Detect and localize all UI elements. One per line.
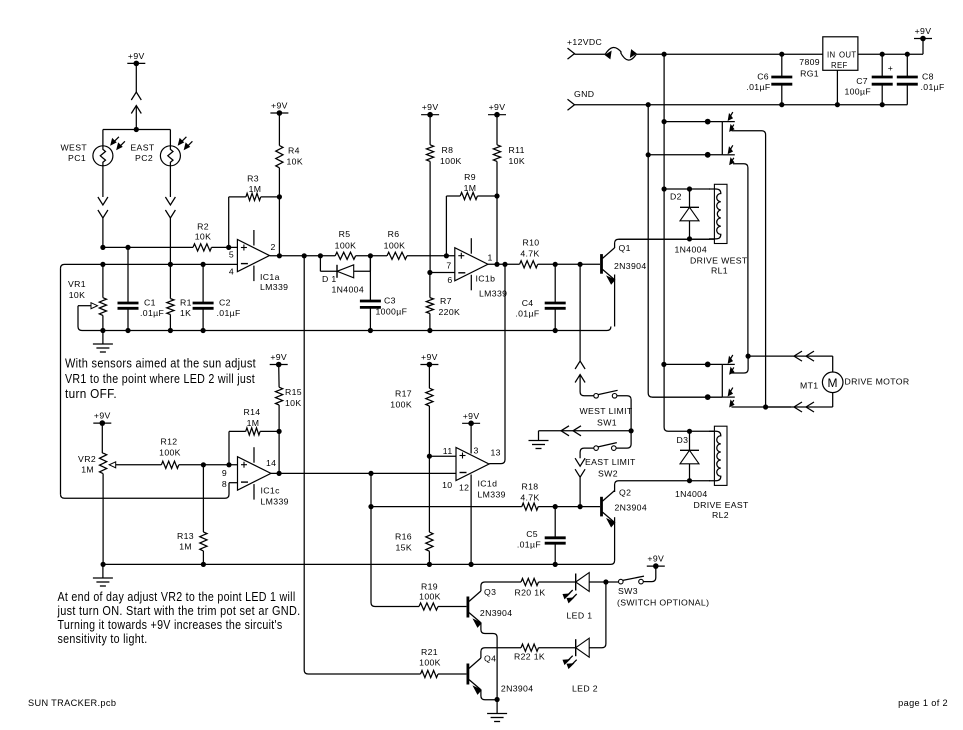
svg-text:LM339: LM339 bbox=[479, 289, 507, 299]
coil winding RL1 bbox=[709, 189, 721, 239]
junction R7 bottom bbox=[427, 328, 432, 333]
wire 9V riser bbox=[922, 39, 924, 55]
svg-text:5: 5 bbox=[229, 250, 234, 260]
wire PC1 down bbox=[102, 166, 104, 197]
svg-text:R8: R8 bbox=[442, 145, 454, 155]
svg-text:SUN TRACKER.pcb: SUN TRACKER.pcb bbox=[28, 698, 116, 708]
svg-text:.01µF: .01µF bbox=[746, 82, 770, 92]
connector J1 +12VDC input bbox=[567, 37, 602, 59]
pin 9 label bbox=[222, 468, 227, 478]
wire LED2 to SW3 node bbox=[589, 582, 606, 648]
junction row4 dot bbox=[705, 394, 711, 400]
svg-text:100K: 100K bbox=[335, 240, 357, 250]
pin 5 label bbox=[229, 250, 234, 260]
svg-text:D2: D2 bbox=[670, 192, 682, 202]
svg-text:10: 10 bbox=[442, 480, 452, 490]
svg-text:page 1 of 2: page 1 of 2 bbox=[898, 698, 948, 708]
resistor R19 100K bbox=[419, 582, 441, 611]
capacitor C3 1000uF bbox=[360, 256, 407, 331]
svg-text:12: 12 bbox=[459, 483, 469, 493]
wire R20 to LED1 bbox=[539, 581, 576, 583]
svg-text:1M: 1M bbox=[81, 465, 94, 475]
resistor R15 10K bbox=[276, 365, 303, 432]
label RL1 name bbox=[690, 256, 748, 276]
wire PC1 to + node bbox=[102, 218, 104, 247]
svg-text:SW2: SW2 bbox=[598, 469, 618, 479]
junction C7 bottom bbox=[880, 102, 885, 107]
svg-text:DRIVE EAST: DRIVE EAST bbox=[694, 500, 749, 510]
wire sensor feed bbox=[135, 106, 137, 130]
wire contact row4 bbox=[652, 396, 722, 398]
pole link RL2 contacts bbox=[721, 364, 723, 397]
svg-text:Q3: Q3 bbox=[484, 587, 496, 597]
wire contact row1 bbox=[664, 121, 722, 123]
svg-text:R16: R16 bbox=[395, 532, 412, 542]
resistor R17 100K bbox=[390, 365, 433, 457]
svg-text:(SWITCH OPTIONAL): (SWITCH OPTIONAL) bbox=[617, 598, 709, 608]
svg-text:OUT: OUT bbox=[839, 51, 857, 60]
wire +12V to regulator IN bbox=[636, 53, 823, 55]
junction output/R4 bbox=[277, 253, 282, 258]
resistor R9 1M bbox=[446, 172, 497, 200]
svg-text:VR2: VR2 bbox=[78, 454, 96, 464]
junction D2 bottom bbox=[687, 236, 692, 241]
diode D1 1N4004 bbox=[320, 256, 370, 295]
pin 12 label bbox=[459, 483, 469, 493]
wire Q1 emitter bbox=[614, 275, 616, 327]
junction row1 dot bbox=[705, 119, 711, 125]
svg-text:1M: 1M bbox=[464, 183, 477, 193]
svg-text:3: 3 bbox=[474, 446, 479, 456]
wire - input bus (node B) bbox=[61, 264, 238, 268]
resistor R3 1M bbox=[229, 174, 280, 201]
svg-text:10K: 10K bbox=[509, 156, 526, 166]
wire Q4 emitter bbox=[481, 690, 497, 700]
junction row2 dot bbox=[705, 152, 711, 158]
svg-text:PC2: PC2 bbox=[135, 153, 153, 163]
svg-text:R7: R7 bbox=[440, 296, 452, 306]
junction +12V bus tap bbox=[662, 52, 667, 57]
junction R9 tap bbox=[444, 253, 449, 258]
wire R6 to pin7 bbox=[407, 255, 455, 257]
svg-text:100K: 100K bbox=[384, 240, 406, 250]
svg-text:LED 1: LED 1 bbox=[567, 611, 593, 621]
capacitor C6 .01uF bbox=[746, 54, 792, 104]
LED 1 bbox=[563, 573, 592, 621]
photocell PC2 bbox=[130, 137, 192, 166]
capacitor C1 .01uF bbox=[118, 247, 165, 330]
capacitor C2 .01uF bbox=[193, 264, 241, 330]
svg-text:.01µF: .01µF bbox=[517, 540, 541, 550]
connector P7 (gnd link) bbox=[561, 426, 581, 436]
junction pin11 node bbox=[427, 454, 432, 459]
svg-text:R13: R13 bbox=[177, 531, 194, 541]
svg-text:6: 6 bbox=[447, 275, 452, 285]
junction R9/R11 bbox=[494, 193, 499, 198]
svg-text:R17: R17 bbox=[395, 389, 412, 399]
wire K1b throw bbox=[733, 164, 748, 356]
junction wire-OR to IC1d bbox=[502, 262, 507, 267]
svg-text:100K: 100K bbox=[390, 400, 412, 410]
svg-text:just turn ON. Start with the: just turn ON. Start with the trim pot se… bbox=[57, 604, 301, 618]
connector P8 (to Q2 base) bbox=[575, 458, 585, 477]
svg-text:.01µF: .01µF bbox=[515, 309, 539, 319]
junction D3 bottom bbox=[687, 478, 692, 483]
svg-text:4: 4 bbox=[229, 267, 234, 277]
op-amp IC1d LM339 bbox=[456, 448, 506, 500]
svg-text:100K: 100K bbox=[159, 448, 181, 458]
svg-text:SW3: SW3 bbox=[618, 586, 638, 596]
wire R4 to output bbox=[278, 197, 280, 256]
connector J2 GND input bbox=[568, 89, 595, 110]
ground (upper bus) bbox=[93, 331, 113, 353]
svg-text:1M: 1M bbox=[179, 542, 192, 552]
wire motor B feed bbox=[766, 406, 833, 408]
svg-text:RL2: RL2 bbox=[712, 510, 729, 520]
svg-text:10K: 10K bbox=[285, 398, 302, 408]
svg-text:D 1: D 1 bbox=[322, 274, 337, 284]
svg-text:+12VDC: +12VDC bbox=[567, 37, 602, 47]
svg-text:With sensors aimed at the sun: With sensors aimed at the sun adjust bbox=[65, 357, 256, 371]
transistor Q3 2N3904 bbox=[468, 587, 513, 627]
svg-text:LM339: LM339 bbox=[260, 282, 288, 292]
footer right bbox=[898, 698, 948, 708]
svg-text:IC1a: IC1a bbox=[260, 272, 280, 282]
wire R15 to output bbox=[278, 431, 280, 473]
svg-text:C6: C6 bbox=[757, 72, 769, 82]
svg-text:LED 2: LED 2 bbox=[572, 684, 598, 694]
contact K2b (to motor B) bbox=[722, 388, 735, 407]
junction D3 top bbox=[687, 429, 692, 434]
junction C3/D1 anode bbox=[368, 253, 373, 258]
junction C5 bottom bbox=[553, 562, 558, 567]
svg-text:R9: R9 bbox=[464, 172, 476, 182]
pin 11 label bbox=[443, 446, 453, 456]
svg-text:+9V: +9V bbox=[128, 51, 145, 61]
connector P1 (sensor plug upper) bbox=[131, 92, 141, 114]
pole link RL1 contacts bbox=[721, 122, 723, 155]
label D2 part bbox=[675, 245, 708, 255]
pin 2 label bbox=[271, 242, 276, 252]
power +9V (VR2) bbox=[93, 411, 111, 426]
note 1 bbox=[65, 357, 256, 401]
junction R13 bottom bbox=[201, 562, 206, 567]
svg-text:100K: 100K bbox=[419, 658, 441, 668]
wire motor B rise bbox=[832, 393, 834, 407]
svg-text:13: 13 bbox=[491, 448, 501, 458]
power +9V (R17) bbox=[420, 352, 438, 367]
junction R15 pull-up bbox=[277, 471, 282, 476]
junction GND bus tap bbox=[646, 102, 651, 107]
svg-text:M: M bbox=[828, 376, 838, 390]
svg-text:RL1: RL1 bbox=[711, 266, 728, 276]
svg-text:2N3904: 2N3904 bbox=[501, 684, 534, 694]
junction C5 top bbox=[553, 504, 558, 509]
junction motor A node bbox=[746, 354, 751, 359]
svg-text:10K: 10K bbox=[195, 232, 212, 242]
motor MT1 bbox=[800, 372, 910, 393]
wire R2 to pin5 bbox=[212, 246, 238, 248]
power +9V supply node bbox=[914, 26, 932, 41]
svg-text:.01µF: .01µF bbox=[217, 308, 241, 318]
svg-text:sensitivity to light.: sensitivity to light. bbox=[58, 632, 148, 646]
svg-text:+9V: +9V bbox=[647, 554, 664, 564]
junction drive-east takeoff bbox=[302, 253, 307, 258]
junction C7 top bbox=[880, 52, 885, 57]
svg-text:C4: C4 bbox=[522, 298, 534, 308]
wire pin6 input bbox=[430, 272, 455, 274]
junction R19 takeoff bbox=[368, 471, 373, 476]
svg-text:C5: C5 bbox=[526, 529, 538, 539]
svg-text:LM339: LM339 bbox=[478, 490, 506, 500]
wire R12 to pin9 bbox=[179, 464, 238, 466]
junction RL1 +12V bbox=[662, 186, 667, 191]
resistor R20 1K bbox=[515, 578, 546, 597]
power +9V (IC1d V+) bbox=[462, 411, 480, 426]
ground (lower bus) bbox=[93, 564, 113, 586]
svg-text:Q4: Q4 bbox=[484, 654, 496, 664]
junction row2 GND bbox=[646, 152, 651, 157]
svg-text:10K: 10K bbox=[287, 157, 304, 167]
junction C4 bottom bbox=[553, 328, 558, 333]
junction sensor branch bbox=[134, 127, 139, 132]
capacitor C5 .01uF bbox=[517, 507, 566, 565]
footer left bbox=[28, 698, 116, 708]
wire LED1 to SW3 node bbox=[589, 581, 618, 583]
junction REF to GND bbox=[835, 102, 840, 107]
wire GND rail bbox=[575, 104, 908, 106]
connector P4 (motor A) bbox=[794, 351, 814, 361]
junction VR2 bottom bbox=[101, 562, 106, 567]
svg-text:+9V: +9V bbox=[915, 26, 932, 36]
junction SW2 feed bbox=[578, 504, 583, 509]
svg-text:R14: R14 bbox=[244, 407, 261, 417]
resistor R21 100K bbox=[419, 647, 441, 678]
transistor Q4 2N3904 bbox=[468, 654, 534, 695]
svg-text:Turning it towards +9V increas: Turning it towards +9V increases the sir… bbox=[58, 618, 283, 632]
wire SW1 to junction bbox=[617, 396, 631, 431]
wire IC1c output to IC1d pin10 bbox=[271, 472, 456, 474]
svg-text:LM339: LM339 bbox=[261, 497, 289, 507]
junction emitters bbox=[495, 697, 500, 702]
resistor R4 10K bbox=[276, 113, 303, 197]
svg-text:RG1: RG1 bbox=[800, 69, 819, 79]
svg-text:R10: R10 bbox=[523, 237, 540, 247]
junction D2 top bbox=[687, 186, 692, 191]
svg-text:R22 1K: R22 1K bbox=[514, 652, 545, 662]
junction R11 pull-up bbox=[494, 262, 499, 267]
contact K1b (to motor A) bbox=[722, 145, 735, 164]
svg-text:Q1: Q1 bbox=[619, 243, 631, 253]
svg-text:100K: 100K bbox=[419, 592, 441, 602]
svg-text:11: 11 bbox=[443, 446, 453, 456]
svg-text:R4: R4 bbox=[288, 146, 300, 156]
switch SW3 (optional) bbox=[617, 576, 709, 607]
junction row3 dot bbox=[705, 362, 711, 368]
junction R8/R7 at pin6 bbox=[427, 270, 432, 275]
wire drive-west drop bbox=[579, 264, 581, 361]
svg-text:WEST LIMIT: WEST LIMIT bbox=[579, 406, 632, 416]
wire motor A drop bbox=[832, 356, 834, 372]
svg-text:R15: R15 bbox=[285, 387, 302, 397]
svg-text:1N4004: 1N4004 bbox=[675, 245, 708, 255]
svg-text:+: + bbox=[888, 63, 893, 73]
svg-text:R5: R5 bbox=[339, 229, 351, 239]
wire RG1 REF to GND bbox=[836, 70, 838, 104]
svg-text:R6: R6 bbox=[388, 229, 400, 239]
wire PC2 down bbox=[169, 166, 171, 197]
svg-text:C8: C8 bbox=[922, 72, 934, 82]
svg-text:C7: C7 bbox=[856, 76, 868, 86]
relay coil RL2 bbox=[714, 426, 727, 485]
wire gnd to limit common bbox=[539, 430, 632, 432]
resistor R11 10K bbox=[493, 115, 525, 265]
svg-text:15K: 15K bbox=[395, 543, 412, 553]
wire SW2 left bbox=[580, 448, 594, 458]
junction R18 tap bbox=[368, 504, 373, 509]
svg-text:4.7K: 4.7K bbox=[520, 248, 539, 258]
wire IC1d V- to ground bus bbox=[470, 475, 472, 565]
junction C2 bottom bbox=[201, 328, 206, 333]
svg-text:.01µF: .01µF bbox=[140, 308, 164, 318]
capacitor C8 .01uF bbox=[897, 54, 945, 104]
op-amp IC1a LM339 bbox=[237, 230, 288, 292]
svg-text:R11: R11 bbox=[509, 145, 525, 155]
svg-text:DRIVE MOTOR: DRIVE MOTOR bbox=[845, 377, 910, 387]
wire +12V input bbox=[575, 53, 606, 55]
label D3 part bbox=[675, 489, 708, 499]
resistor R2 10K bbox=[193, 222, 212, 252]
junction IC1d V- gnd bbox=[469, 562, 474, 567]
wire R14 left leg bbox=[228, 431, 230, 464]
svg-text:1K: 1K bbox=[180, 308, 191, 318]
LED 2 bbox=[563, 638, 598, 693]
junction D1 cathode bbox=[318, 253, 323, 258]
capacitor C4 .01uF bbox=[515, 264, 565, 330]
resistor R8 100K bbox=[427, 115, 462, 273]
wire R3 left leg bbox=[228, 197, 230, 248]
ground (limit switches) bbox=[529, 431, 549, 449]
resistor R18 4.7K bbox=[520, 482, 539, 511]
transistor Q2 2N3904 bbox=[602, 488, 648, 527]
relay coil RL1 bbox=[714, 184, 727, 243]
junction C1 bottom bbox=[125, 328, 130, 333]
wire GND bus (relays) bbox=[648, 105, 722, 397]
junction C8 top bbox=[905, 52, 910, 57]
diode D2 1N4004 bbox=[670, 189, 699, 239]
svg-text:C3: C3 bbox=[384, 296, 396, 306]
wire R18 row bbox=[371, 506, 522, 508]
switch SW2 east limit bbox=[585, 443, 636, 479]
pin 8 label bbox=[222, 479, 227, 489]
wire IC1a output bbox=[270, 255, 336, 257]
wire R9 left leg bbox=[445, 196, 447, 256]
wire branch to PC1 bbox=[103, 130, 136, 146]
junction row3 +12V bbox=[661, 362, 666, 367]
resistor R10 4.7K bbox=[520, 237, 540, 268]
power +9V (R15) bbox=[270, 352, 288, 367]
junction C6 bottom bbox=[779, 102, 784, 107]
resistor R6 100K bbox=[384, 229, 407, 259]
svg-text:C1: C1 bbox=[144, 298, 156, 308]
wire R19 to Q3 base bbox=[438, 606, 466, 608]
wire to SW1 bbox=[580, 375, 594, 396]
wire R17-R16 link bbox=[428, 456, 430, 532]
pin 7 label bbox=[446, 261, 451, 271]
wire connector to base node bbox=[579, 477, 581, 506]
svg-text:+9V: +9V bbox=[489, 102, 506, 112]
svg-text:R12: R12 bbox=[161, 437, 178, 447]
svg-text:R3: R3 bbox=[247, 174, 259, 184]
wire IC1d V+ stub bbox=[470, 423, 472, 453]
wire RL2 bottom (Q2 collector) bbox=[615, 481, 710, 492]
power +9V (R11) bbox=[488, 102, 506, 117]
power +9V (sensor feed) bbox=[127, 51, 145, 66]
label RL2 name bbox=[694, 500, 749, 520]
svg-text:1M: 1M bbox=[247, 418, 260, 428]
svg-text:EAST: EAST bbox=[130, 143, 154, 153]
wire K2a throw bbox=[732, 356, 749, 373]
connector P5 (motor B) bbox=[794, 402, 814, 412]
wire 9V output rail bbox=[858, 53, 923, 55]
pin 14 label bbox=[266, 458, 276, 468]
pin 1 label bbox=[488, 253, 493, 263]
svg-text:7: 7 bbox=[446, 261, 451, 271]
svg-text:R2: R2 bbox=[197, 222, 209, 232]
svg-text:1N4004: 1N4004 bbox=[332, 285, 365, 295]
svg-text:14: 14 bbox=[266, 458, 276, 468]
svg-text:2N3904: 2N3904 bbox=[615, 503, 648, 513]
resistor R14 1M bbox=[229, 407, 279, 435]
power +9V (R4) bbox=[270, 101, 288, 116]
svg-text:100K: 100K bbox=[440, 156, 462, 166]
svg-text:PC1: PC1 bbox=[68, 153, 86, 163]
power +9V (R8) bbox=[421, 102, 439, 117]
junction R14 tap bbox=[226, 462, 231, 467]
svg-text:SW1: SW1 bbox=[597, 418, 617, 428]
wire PC2 to - node bbox=[169, 218, 171, 264]
svg-text:2: 2 bbox=[271, 242, 276, 252]
junction R14/R15 bbox=[277, 429, 282, 434]
svg-text:GND: GND bbox=[574, 89, 594, 99]
wire Q4 collector bbox=[481, 648, 521, 658]
contact K1a (to motor B) bbox=[722, 112, 735, 131]
wire Q3 collector bbox=[481, 582, 521, 591]
svg-text:+9V: +9V bbox=[422, 102, 439, 112]
wire R5-R6 bbox=[356, 255, 387, 257]
svg-text:.01µF: .01µF bbox=[921, 82, 945, 92]
connector P2 (PC1 return) bbox=[98, 197, 108, 218]
junction LED right node bbox=[603, 579, 608, 584]
junction drive-west takeoff bbox=[578, 262, 583, 267]
junction C2 top bbox=[201, 262, 206, 267]
wire K2b throw / motor B feed bbox=[732, 406, 792, 408]
resistor R13 1M bbox=[177, 465, 207, 565]
svg-text:WEST: WEST bbox=[61, 143, 88, 153]
svg-text:R20 1K: R20 1K bbox=[515, 588, 546, 598]
svg-text:REF: REF bbox=[831, 61, 848, 70]
svg-text:IC1c: IC1c bbox=[261, 486, 281, 496]
wire contact row2 bbox=[648, 154, 722, 156]
junction C4 top bbox=[553, 262, 558, 267]
junction C3 bottom bbox=[368, 328, 373, 333]
connector hooks (inline splice) bbox=[605, 47, 636, 60]
junction R13 top bbox=[201, 462, 206, 467]
svg-text:D3: D3 bbox=[677, 435, 689, 445]
wire contact row3 bbox=[664, 363, 722, 365]
svg-text:+9V: +9V bbox=[94, 411, 111, 421]
wire branch to PC2 bbox=[136, 130, 170, 146]
